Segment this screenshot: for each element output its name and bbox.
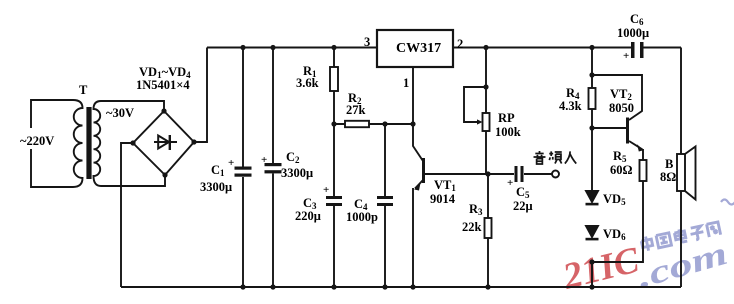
svg-text:9014: 9014 bbox=[430, 192, 456, 206]
junction C1 top rail bbox=[240, 45, 245, 50]
junction CW317 pin1 / VT1 collector node bbox=[410, 121, 415, 126]
junction R4 bottom / VT2 base / VD5 node bbox=[589, 125, 594, 130]
svg-text:1N5401×4: 1N5401×4 bbox=[136, 78, 190, 92]
junction bridge DC+ right corner bbox=[191, 139, 196, 144]
junction VT1 base / RP / C5 / R3 node bbox=[485, 171, 490, 176]
wire secondary bottom to bridge bottom bbox=[101, 175, 165, 186]
junction C1 bottom rail bbox=[240, 284, 245, 289]
char yin bbox=[534, 151, 546, 164]
junction C4 bottom rail bbox=[382, 284, 387, 289]
svg-text:1000p: 1000p bbox=[346, 210, 378, 224]
AC source ~220V loop bbox=[31, 100, 73, 187]
transistor VT1 bbox=[413, 124, 423, 161]
capacitor C1 bbox=[242, 48, 244, 288]
potentiometer RP bbox=[485, 48, 487, 175]
bridge rectifier VD1~VD4 diamond bbox=[133, 111, 194, 175]
junction VD6 / R5 bottom node bbox=[589, 259, 594, 264]
svg-text:3300μ: 3300μ bbox=[200, 180, 232, 194]
svg-text:1000μ: 1000μ bbox=[617, 26, 649, 40]
speaker B bbox=[677, 154, 685, 191]
capacitor C6 bbox=[631, 42, 635, 58]
junction C3 bottom rail bbox=[331, 284, 336, 289]
svg-text:+: + bbox=[323, 184, 329, 196]
capacitor C3 bbox=[333, 124, 335, 287]
junction RP top rail bbox=[483, 45, 488, 50]
junction R4 top / VT2 collector branch bbox=[589, 72, 594, 77]
label audio input (hand-drawn CJK) bbox=[534, 151, 577, 164]
transformer T secondary winding bbox=[94, 101, 102, 186]
svg-text:+: + bbox=[623, 50, 629, 62]
svg-text:22μ: 22μ bbox=[513, 199, 533, 213]
char ru bbox=[565, 151, 576, 163]
wire secondary top to bridge top bbox=[101, 101, 164, 111]
svg-text:CW317: CW317 bbox=[396, 41, 441, 56]
junction VD6 branch bottom rail bbox=[589, 284, 594, 289]
wire VT2 collector top bbox=[592, 75, 642, 120]
svg-text:T: T bbox=[79, 83, 88, 97]
transistor VT2 bbox=[592, 127, 626, 129]
svg-text:22k: 22k bbox=[462, 220, 482, 234]
diode VD5 bbox=[586, 191, 598, 202]
resistor R5 bbox=[592, 149, 643, 262]
svg-text:B: B bbox=[665, 157, 673, 171]
junction R3 bottom rail bbox=[485, 284, 490, 289]
junction C2 bottom rail bbox=[270, 284, 275, 289]
svg-text:~30V: ~30V bbox=[106, 106, 134, 120]
svg-text:220μ: 220μ bbox=[295, 209, 321, 223]
watermark TM mark bbox=[721, 200, 734, 205]
char pin bbox=[549, 151, 561, 163]
junction RP wiper tie bbox=[483, 84, 488, 89]
svg-text:3300μ: 3300μ bbox=[281, 166, 313, 180]
top rail right segment bbox=[453, 47, 631, 49]
junction bridge AC bottom corner bbox=[162, 172, 167, 177]
resistor R1 bbox=[333, 48, 335, 125]
wire bridge right corner to top rail bbox=[194, 48, 207, 143]
svg-text:4.3k: 4.3k bbox=[559, 99, 582, 113]
top rail left segment bbox=[207, 47, 377, 49]
capacitor C5 bbox=[515, 166, 518, 182]
svg-text:RP: RP bbox=[498, 111, 515, 125]
svg-text:8Ω: 8Ω bbox=[660, 170, 676, 184]
wire CW317 pin1 down bbox=[412, 67, 414, 124]
svg-text:100k: 100k bbox=[495, 125, 521, 139]
svg-text:3: 3 bbox=[364, 35, 370, 49]
capacitor C2 bbox=[272, 48, 274, 288]
svg-text:3.6k: 3.6k bbox=[296, 76, 319, 90]
watermark 中国电子网 bbox=[641, 221, 721, 252]
svg-text:2: 2 bbox=[457, 37, 463, 51]
resistor R2 bbox=[334, 123, 413, 125]
junction VT1 emitter bottom rail bbox=[410, 284, 415, 289]
watermark 21IC bbox=[558, 200, 734, 298]
junction R2/C4 node bbox=[382, 121, 387, 126]
bridge inner diode symbol bbox=[154, 141, 177, 143]
audio input terminal bbox=[552, 171, 559, 178]
capacitor C4 bbox=[384, 124, 386, 287]
svg-text:+: + bbox=[507, 177, 513, 189]
svg-text:1: 1 bbox=[403, 76, 409, 90]
diode VD6 bbox=[586, 226, 598, 237]
svg-text:+: + bbox=[228, 157, 234, 169]
wire bridge left corner to bottom rail bbox=[121, 143, 133, 287]
junction R1 top rail bbox=[331, 45, 336, 50]
junction R4 top rail bbox=[589, 45, 594, 50]
svg-text:60Ω: 60Ω bbox=[610, 163, 633, 177]
junction R1/R2/C3 node bbox=[331, 121, 336, 126]
svg-text:27k: 27k bbox=[346, 103, 366, 117]
svg-text:+: + bbox=[261, 154, 267, 166]
transformer T primary winding bbox=[73, 100, 83, 187]
junction C2 top rail bbox=[270, 45, 275, 50]
svg-text:8050: 8050 bbox=[609, 101, 634, 115]
regulator CW317 box bbox=[377, 30, 453, 67]
svg-text:~220V: ~220V bbox=[20, 134, 54, 148]
bottom rail bbox=[121, 286, 681, 288]
resistor R3 bbox=[487, 174, 489, 287]
transformer T core bbox=[86, 107, 91, 179]
resistor R4 column bbox=[591, 48, 593, 192]
junction bridge AC top corner bbox=[161, 108, 166, 113]
junction bridge DC- left corner bbox=[130, 140, 135, 145]
wire right edge down to speaker bbox=[680, 48, 682, 288]
